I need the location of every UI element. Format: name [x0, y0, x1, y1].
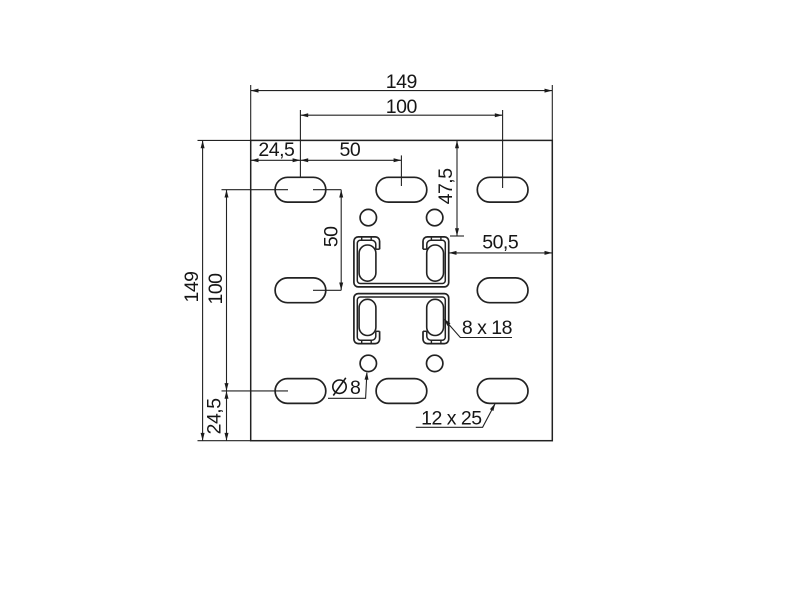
slot top-left 12x25 [275, 177, 326, 202]
arrow 24,5 top right [293, 158, 301, 162]
arrow 47,5 down [455, 228, 459, 236]
arrow 100 left up [225, 190, 229, 198]
arrow 100 top right [495, 113, 503, 117]
arrow 149 top right [545, 89, 553, 93]
svg-text:100: 100 [205, 273, 227, 305]
hole top-right d8 [427, 209, 443, 225]
profile lower lip cut left [376, 330, 380, 332]
profile upper lip cut left [376, 248, 380, 250]
dim 149 left ext top [198, 139, 251, 141]
arrow 100 top left [300, 113, 308, 117]
dim 100 top ext right [502, 110, 504, 188]
profile upper bend ticks [362, 237, 441, 240]
arrow 24,5 left down [225, 433, 229, 441]
dim 47,5 line [456, 140, 458, 236]
arrow 50 top left [300, 158, 308, 162]
svg-text:47,5: 47,5 [435, 168, 457, 205]
dim 24,5 top line [251, 159, 301, 161]
dim 149 top ext left [250, 85, 252, 140]
arrow 47,5 up [455, 140, 459, 148]
slot middle-right 12x25 [477, 278, 528, 303]
hole top-left d8 [360, 209, 376, 225]
svg-text:8 x 18: 8 x 18 [462, 317, 512, 339]
profile upper lip cut right [423, 248, 427, 250]
hole bottom-left d8 [360, 355, 376, 371]
arrow 8x18 [444, 319, 451, 326]
dim 50 mid line [340, 190, 342, 291]
dim 47,5 ext [450, 235, 464, 237]
svg-text:24,5: 24,5 [204, 398, 226, 435]
dim 100 left ext bottom [222, 390, 289, 392]
arrow 50,5 left [449, 251, 457, 255]
plate outline [251, 140, 553, 440]
dim 149 top ext right [551, 85, 553, 140]
dim 149 left line [202, 140, 204, 440]
profile upper outer contour [354, 237, 449, 287]
svg-text:12 x 25: 12 x 25 [421, 407, 482, 429]
dim 50 mid ext bottom [313, 289, 341, 291]
profile lower bend ticks [362, 340, 441, 343]
dim 100 left line [226, 190, 228, 391]
dim 100 top ext left [299, 110, 301, 177]
arrow 50,5 right [545, 251, 553, 255]
dim 149 top line [251, 90, 553, 92]
leader d8 [328, 373, 367, 399]
profile upper inner contour [357, 240, 445, 283]
slot top-middle 12x25 [376, 177, 427, 202]
arrow 149 left down [201, 433, 205, 441]
dim 24,5 left line [226, 391, 228, 441]
profile slot upper-right 8x18 [427, 245, 444, 281]
svg-text:50,5: 50,5 [482, 231, 519, 253]
dim 100 top line [300, 114, 502, 116]
arrow 50 mid up [339, 190, 343, 198]
arrow d8 [365, 372, 369, 380]
arrow 100 left down [225, 383, 229, 391]
arrow 50 mid down [339, 283, 343, 291]
arrow 12x25 [490, 403, 495, 411]
arrow 149 top left [251, 89, 259, 93]
leader 12x25 [416, 404, 495, 427]
svg-text:149: 149 [386, 71, 417, 93]
arrow 24,5 left up [225, 391, 229, 399]
profile lower inner contour [357, 297, 445, 340]
profile slot upper-left 8x18 [359, 245, 376, 281]
dim 50,5 line [449, 252, 553, 254]
profile slot lower-right 8x18 [427, 299, 444, 335]
dim 50 top line [300, 159, 401, 161]
svg-text:24,5: 24,5 [258, 139, 295, 161]
slot bottom-middle 12x25 [376, 379, 427, 404]
arrow 24,5 top left [251, 158, 259, 162]
slot bottom-right 12x25 [477, 379, 528, 404]
svg-text:100: 100 [386, 96, 418, 118]
dim 50 top ext [400, 155, 402, 186]
arrow 50 top right [394, 158, 402, 162]
dim 149 left ext bottom [198, 440, 251, 442]
dim 100 left ext top [222, 189, 289, 191]
leader 8x18 [445, 320, 513, 338]
profile slot lower-left 8x18 [359, 299, 376, 335]
hole bottom-right d8 [427, 355, 443, 371]
dim 50 mid ext top [313, 189, 341, 191]
slot bottom-left 12x25 [275, 379, 326, 404]
slot middle-left 12x25 [275, 278, 326, 303]
arrow 149 left up [201, 140, 205, 148]
profile lower outer contour [354, 294, 449, 344]
svg-text:50: 50 [321, 226, 343, 247]
diameter symbol [333, 378, 346, 396]
slot top-right 12x25 [477, 177, 528, 202]
profile lower lip cut right [423, 330, 427, 332]
svg-text:149: 149 [181, 271, 203, 302]
svg-text:50: 50 [340, 139, 361, 161]
svg-text:8: 8 [350, 377, 360, 399]
